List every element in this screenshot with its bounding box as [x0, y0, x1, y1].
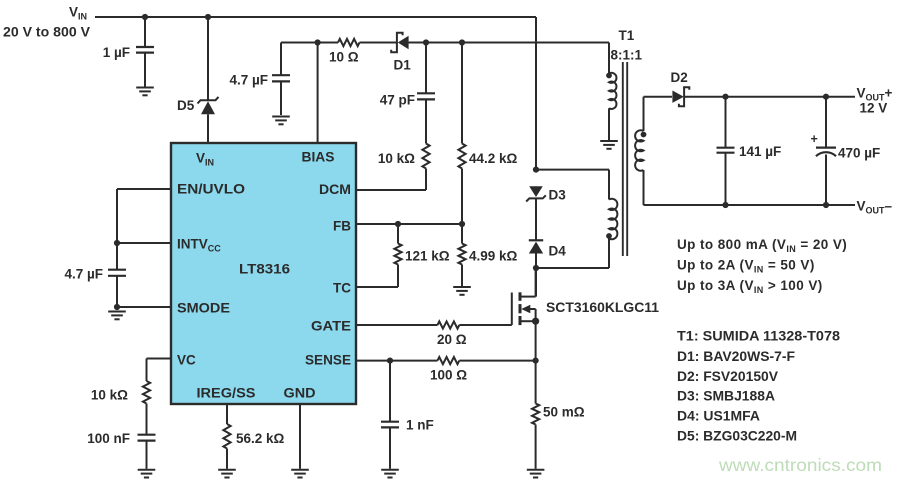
svg-text:141 µF: 141 µF: [739, 144, 781, 159]
svg-text:D1: BAV20WS-7-F: D1: BAV20WS-7-F: [677, 349, 795, 364]
svg-text:GATE: GATE: [311, 319, 351, 334]
svg-text:D1: D1: [394, 58, 412, 73]
svg-text:LT8316: LT8316: [239, 262, 291, 277]
svg-text:1 nF: 1 nF: [406, 418, 434, 433]
svg-text:56.2 kΩ: 56.2 kΩ: [236, 431, 285, 446]
svg-text:100 nF: 100 nF: [87, 431, 130, 446]
svg-text:SMODE: SMODE: [177, 301, 230, 316]
svg-text:+: +: [811, 132, 818, 146]
svg-text:47 pF: 47 pF: [380, 93, 415, 108]
svg-text:10 kΩ: 10 kΩ: [91, 388, 128, 403]
svg-text:SCT3160KLGC11: SCT3160KLGC11: [546, 300, 659, 315]
svg-text:100 Ω: 100 Ω: [430, 368, 467, 383]
svg-text:121 kΩ: 121 kΩ: [405, 249, 450, 264]
svg-text:T1: T1: [619, 28, 635, 43]
svg-text:4.99 kΩ: 4.99 kΩ: [469, 249, 518, 264]
svg-text:SENSE: SENSE: [305, 353, 351, 368]
svg-text:www.cntronics.com: www.cntronics.com: [718, 455, 882, 475]
svg-text:T1: SUMIDA 11328-T078: T1: SUMIDA 11328-T078: [677, 329, 841, 344]
svg-text:GND: GND: [284, 386, 316, 401]
svg-text:BIAS: BIAS: [302, 150, 335, 165]
svg-text:D4: D4: [549, 244, 567, 259]
svg-text:VC: VC: [177, 353, 196, 368]
svg-text:IREG/SS: IREG/SS: [197, 386, 256, 401]
svg-text:Up to 3A (VIN​ > 100 V): Up to 3A (VIN​ > 100 V): [677, 278, 823, 295]
svg-text:D2: FSV20150V: D2: FSV20150V: [677, 369, 778, 384]
svg-text:D5: BZG03C220-M: D5: BZG03C220-M: [677, 429, 797, 444]
svg-text:Up to 2A (VIN​ = 50 V): Up to 2A (VIN​ = 50 V): [677, 258, 815, 275]
svg-text:D2: D2: [671, 70, 688, 85]
svg-text:D3: D3: [549, 188, 567, 203]
svg-text:20 V to 800 V: 20 V to 800 V: [3, 25, 90, 40]
svg-text:D5: D5: [177, 98, 195, 113]
svg-text:10 Ω: 10 Ω: [329, 50, 359, 65]
svg-text:1 µF: 1 µF: [103, 45, 130, 60]
svg-text:TC: TC: [333, 281, 351, 296]
svg-text:8:1:1: 8:1:1: [611, 48, 643, 63]
svg-text:50 mΩ: 50 mΩ: [543, 405, 585, 420]
svg-text:D4: US1MFA: D4: US1MFA: [677, 409, 760, 424]
svg-text:4.7 µF: 4.7 µF: [229, 73, 268, 88]
svg-text:D3: SMBJ188A: D3: SMBJ188A: [677, 389, 775, 404]
svg-text:10 kΩ: 10 kΩ: [378, 151, 415, 166]
svg-text:FB: FB: [333, 219, 351, 234]
svg-text:20 Ω: 20 Ω: [437, 332, 467, 347]
svg-text:Up to 800 mA (VIN​ = 20 V): Up to 800 mA (VIN​ = 20 V): [677, 237, 847, 254]
svg-text:4.7 µF: 4.7 µF: [64, 267, 103, 282]
svg-text:470 µF: 470 µF: [838, 146, 880, 161]
svg-text:12 V: 12 V: [860, 101, 888, 116]
svg-text:DCM: DCM: [319, 182, 351, 197]
svg-text:44.2 kΩ: 44.2 kΩ: [469, 151, 518, 166]
svg-text:EN/UVLO: EN/UVLO: [177, 182, 245, 197]
